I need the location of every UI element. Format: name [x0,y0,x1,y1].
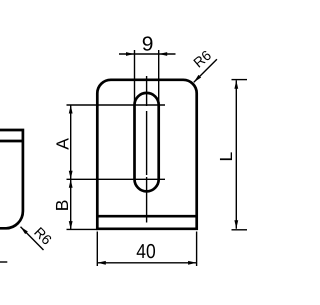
leader R6 top arrow [192,75,201,84]
slot vertical centerline [146,76,148,223]
side view (bent profile, clipped at left edge) [0,130,23,228]
dim 9 left arrow [126,52,135,56]
svg-text:40: 40 [136,239,156,262]
dim 9 line [119,53,176,55]
dim A top arrow [69,105,73,114]
dim B bottom arrow [69,221,73,230]
slot (obround hole) [135,93,159,191]
side view inner thickness line [0,140,23,143]
dim 40 left extension line [96,232,98,267]
dim A bottom arrow [69,171,73,180]
bend tangent line of front view [97,215,196,218]
svg-text:B: B [52,200,72,212]
dim 40 line [97,262,196,264]
svg-text:L: L [216,151,236,161]
slot bottom cross line / extension between dims A and B [67,178,166,180]
leader R6 bottom (bend radius) [21,227,44,250]
leader R6 top (corner radius) [194,59,217,82]
dim B line [70,179,72,229]
dim B bottom extension line [67,228,99,230]
dim L top extension line [232,79,248,81]
dim 40 left arrow [97,261,106,265]
dim L bottom extension line [232,229,248,231]
svg-text:A: A [53,138,73,150]
dim 9 right arrow [159,52,168,56]
svg-text:9: 9 [142,32,154,55]
dim L line [235,80,237,229]
front view outline (rounded-top plate 40 wide) [97,80,196,229]
clipped dimension line at lower-left image edge [0,261,7,263]
dim 9 right extension line [158,50,160,105]
dim L bottom arrow [234,220,238,229]
dim 9 left extension line [134,50,136,105]
dim 40 right extension line [196,232,198,267]
slot top cross line / extension for dim A [67,104,166,106]
dim 40 right arrow [188,261,197,265]
dim B top arrow [69,179,73,188]
dim A line [70,105,72,179]
dim L top arrow [234,80,238,89]
leader R6 bottom arrow [19,225,28,234]
